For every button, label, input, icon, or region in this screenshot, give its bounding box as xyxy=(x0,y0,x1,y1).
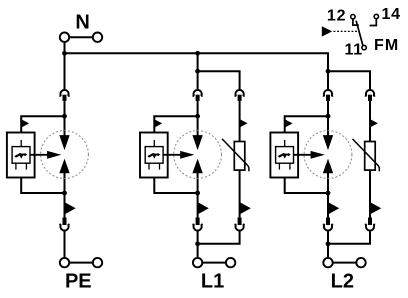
svg-text:PE: PE xyxy=(65,270,92,292)
svg-text:12: 12 xyxy=(327,7,346,24)
svg-text:FM: FM xyxy=(374,37,400,54)
svg-text:N: N xyxy=(75,12,89,34)
svg-text:14: 14 xyxy=(381,6,400,23)
svg-text:11: 11 xyxy=(344,41,363,58)
svg-text:L2: L2 xyxy=(331,270,354,292)
svg-text:L1: L1 xyxy=(201,270,224,292)
